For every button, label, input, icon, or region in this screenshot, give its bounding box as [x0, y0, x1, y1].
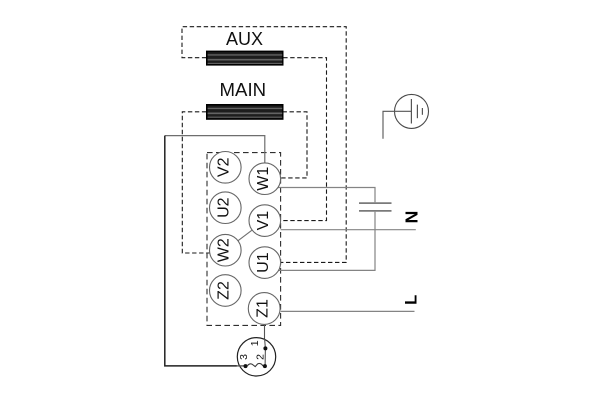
svg-text:AUX: AUX [226, 29, 263, 49]
svg-text:Z1: Z1 [255, 299, 272, 318]
terminal V1 [249, 205, 281, 237]
svg-text:V2: V2 [216, 157, 233, 177]
auxiliary winding AUX (laminated bar) [207, 51, 283, 64]
svg-text:2: 2 [255, 354, 267, 360]
terminal U1 [249, 247, 281, 279]
svg-text:N: N [402, 211, 422, 224]
plug pin 1 [263, 346, 267, 350]
wire: terminal V1 right to N [281, 229, 416, 231]
wire: terminal W1 up and across to the left [165, 136, 265, 164]
svg-text:U2: U2 [216, 197, 233, 218]
svg-text:U1: U1 [255, 252, 272, 273]
wire: terminal U1 right, up to capacitor bottom plate [278, 212, 375, 271]
svg-text:3: 3 [238, 354, 250, 360]
terminal Z2 [210, 275, 242, 307]
capacitor C [359, 203, 392, 211]
wire dashed: MAIN winding right lead down to terminal W1 [281, 112, 307, 178]
wire dashed: AUX winding left lead, loop over top, down right side into terminal U1 [182, 27, 346, 263]
terminal V2 [210, 152, 242, 184]
svg-text:L: L [402, 295, 421, 305]
svg-text:W1: W1 [255, 167, 272, 191]
wire: left drop down to motor plug pin 3 [165, 136, 237, 366]
main winding MAIN (laminated bar) [207, 105, 283, 119]
wire: terminal Z1 down to motor plug pin 1 [264, 324, 266, 340]
wire: terminal W1 right to capacitor top plate [278, 188, 376, 203]
plug pin 3 [244, 364, 248, 368]
wire: jumper terminal W2 to terminal V1 [238, 230, 252, 241]
svg-text:1: 1 [249, 340, 261, 346]
plug pin 2 [263, 364, 267, 368]
ground symbol (protective earth in circle) [383, 94, 429, 138]
wire inside plug: pin 1 down to pin 2 [264, 339, 267, 366]
svg-text:MAIN: MAIN [220, 79, 266, 100]
terminal Z1 [248, 293, 280, 325]
terminal U2 [210, 192, 242, 224]
terminal W2 [210, 234, 242, 266]
thermal element squiggle between pin 3 and pin 2 [247, 363, 263, 366]
wire dashed: AUX winding right lead down to terminal V1 [281, 58, 327, 221]
svg-text:Z2: Z2 [216, 281, 233, 300]
svg-text:W2: W2 [216, 238, 233, 262]
wire: terminal Z1 right to L [281, 310, 415, 312]
motor plug connector [237, 338, 276, 376]
terminal box (dashed outline) [207, 153, 281, 326]
wire dashed: MAIN winding left lead down to terminal W2 [182, 112, 209, 253]
wire inside plug: left lead to pin 3 [237, 365, 246, 367]
svg-text:V1: V1 [255, 211, 272, 231]
terminal W1 [249, 163, 281, 195]
